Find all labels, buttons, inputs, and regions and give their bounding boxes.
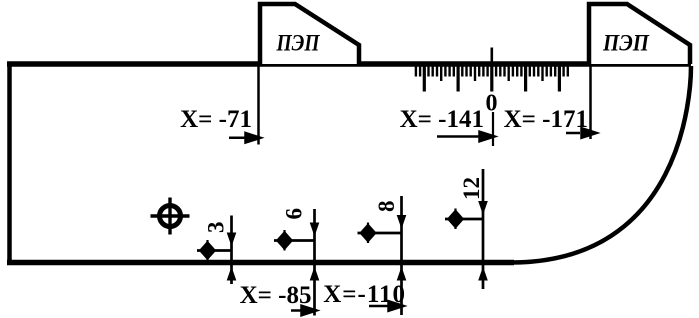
scale zero tick <box>490 48 493 63</box>
dimension X=-110 arrow <box>369 301 404 311</box>
dimension X=-171 extension line <box>589 65 592 139</box>
depth 6 up arrow <box>310 267 320 281</box>
hole 12 vertical tick <box>454 209 456 230</box>
dimension X=-85 arrow <box>291 306 317 316</box>
reference point marker circle <box>160 206 181 227</box>
test block bottom surface <box>7 260 514 266</box>
svg-text:X= -141: X= -141 <box>400 106 484 133</box>
depth 6 down arrow <box>310 223 320 237</box>
test block left edge <box>7 62 12 265</box>
dimension X=-141 leader tick <box>492 112 494 146</box>
depth 12 up arrow <box>478 267 488 281</box>
measuring scale ticks <box>416 65 568 92</box>
depth 3 up arrow <box>227 267 237 281</box>
reference point marker horizontal arm <box>151 214 190 217</box>
side-drilled hole 12 mm <box>448 210 464 228</box>
depth 3 down arrow <box>227 233 237 247</box>
depth 8 down arrow <box>397 215 407 229</box>
hole 8 vertical tick <box>367 223 369 244</box>
depth 12 down arrow <box>478 201 488 215</box>
side-drilled hole 6 mm <box>277 232 293 250</box>
svg-text:3: 3 <box>204 222 229 234</box>
dimension X=-171 arrow <box>566 128 597 138</box>
depth dimension 12 line <box>482 169 485 289</box>
svg-text:X=-110: X=-110 <box>323 281 406 308</box>
hole 8 leader line <box>358 232 403 235</box>
transducer PEP 2 (right probe) <box>589 4 690 64</box>
hole 6 vertical tick <box>283 230 285 251</box>
transducer PEP 1 (left probe) <box>260 4 359 64</box>
dimension X=-141 arrow <box>437 132 495 142</box>
svg-text:8: 8 <box>374 201 399 213</box>
svg-text:6: 6 <box>282 208 307 220</box>
test block top surface <box>7 61 691 67</box>
svg-text:ПЭП: ПЭП <box>276 31 321 56</box>
hole 3 vertical tick <box>206 240 208 261</box>
reference point marker vertical arm <box>168 198 171 235</box>
svg-text:X= -85: X= -85 <box>240 282 312 309</box>
svg-text:X= -71: X= -71 <box>180 106 252 133</box>
depth dimension 8 line <box>400 196 403 315</box>
svg-text:12: 12 <box>459 177 484 200</box>
dimension X=-71 extension line <box>257 65 260 145</box>
dimension X=-71 arrow <box>229 133 261 143</box>
hole 6 leader line <box>274 239 316 242</box>
svg-text:X= -171: X= -171 <box>504 106 588 133</box>
svg-text:ПЭП: ПЭП <box>602 31 650 56</box>
hole 3 leader line <box>197 249 233 252</box>
side-drilled hole 3 mm <box>200 242 216 260</box>
hole 12 leader line <box>445 218 484 221</box>
depth 8 up arrow <box>397 267 407 281</box>
depth dimension 3 line <box>230 216 233 285</box>
side-drilled hole 8 mm <box>360 224 376 242</box>
svg-text:0: 0 <box>486 91 498 117</box>
test block curved right edge <box>511 66 691 263</box>
depth dimension 6 line <box>313 209 316 316</box>
